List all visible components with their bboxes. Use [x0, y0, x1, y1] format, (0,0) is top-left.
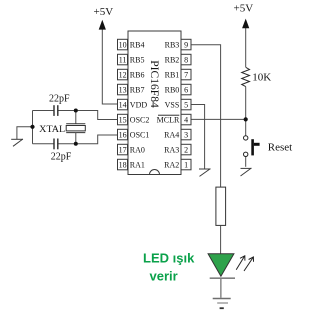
svg-text:7: 7	[184, 71, 188, 80]
svg-text:OSC2: OSC2	[130, 115, 150, 124]
svg-text:RA4: RA4	[164, 130, 179, 139]
svg-text:VSS: VSS	[165, 100, 180, 109]
svg-text:+5V: +5V	[234, 2, 254, 14]
svg-text:18: 18	[119, 161, 127, 170]
svg-text:17: 17	[119, 146, 127, 155]
svg-text:RB3: RB3	[165, 40, 180, 49]
svg-text:13: 13	[119, 86, 127, 95]
svg-text:LED ışık: LED ışık	[143, 250, 195, 265]
svg-text:verir: verir	[150, 269, 178, 284]
svg-text:RA0: RA0	[130, 145, 145, 154]
svg-text:1: 1	[184, 161, 188, 170]
svg-text:VDD: VDD	[130, 100, 148, 109]
svg-text:11: 11	[119, 56, 127, 65]
svg-text:RB2: RB2	[165, 55, 180, 64]
svg-text:3: 3	[184, 131, 188, 140]
svg-text:Reset: Reset	[268, 141, 292, 153]
svg-text:8: 8	[184, 56, 188, 65]
svg-text:2: 2	[184, 146, 188, 155]
svg-text:14: 14	[119, 101, 127, 110]
svg-text:22pF: 22pF	[51, 151, 72, 162]
svg-text:+5V: +5V	[94, 6, 114, 18]
svg-text:15: 15	[119, 116, 127, 125]
svg-text:10K: 10K	[252, 71, 271, 83]
svg-text:9: 9	[184, 41, 188, 50]
svg-text:RB5: RB5	[130, 55, 145, 64]
svg-text:10: 10	[119, 41, 127, 50]
svg-text:RA3: RA3	[164, 145, 179, 154]
svg-text:RB6: RB6	[130, 70, 145, 79]
svg-text:RB1: RB1	[165, 70, 180, 79]
svg-text:RA1: RA1	[130, 160, 145, 169]
svg-text:RA2: RA2	[164, 160, 179, 169]
svg-text:6: 6	[184, 86, 188, 95]
svg-text:PIC16F84: PIC16F84	[148, 60, 162, 108]
svg-text:5: 5	[184, 101, 188, 110]
svg-text:RB4: RB4	[130, 40, 145, 49]
svg-text:XTAL: XTAL	[39, 125, 65, 135]
svg-text:12: 12	[119, 71, 127, 80]
svg-text:4: 4	[184, 116, 188, 125]
svg-text:16: 16	[119, 131, 127, 140]
svg-text:RB0: RB0	[165, 85, 180, 94]
svg-text:22pF: 22pF	[49, 94, 70, 105]
svg-text:OSC1: OSC1	[130, 130, 150, 139]
svg-text:MCLR: MCLR	[157, 115, 180, 124]
svg-text:RB7: RB7	[130, 85, 145, 94]
